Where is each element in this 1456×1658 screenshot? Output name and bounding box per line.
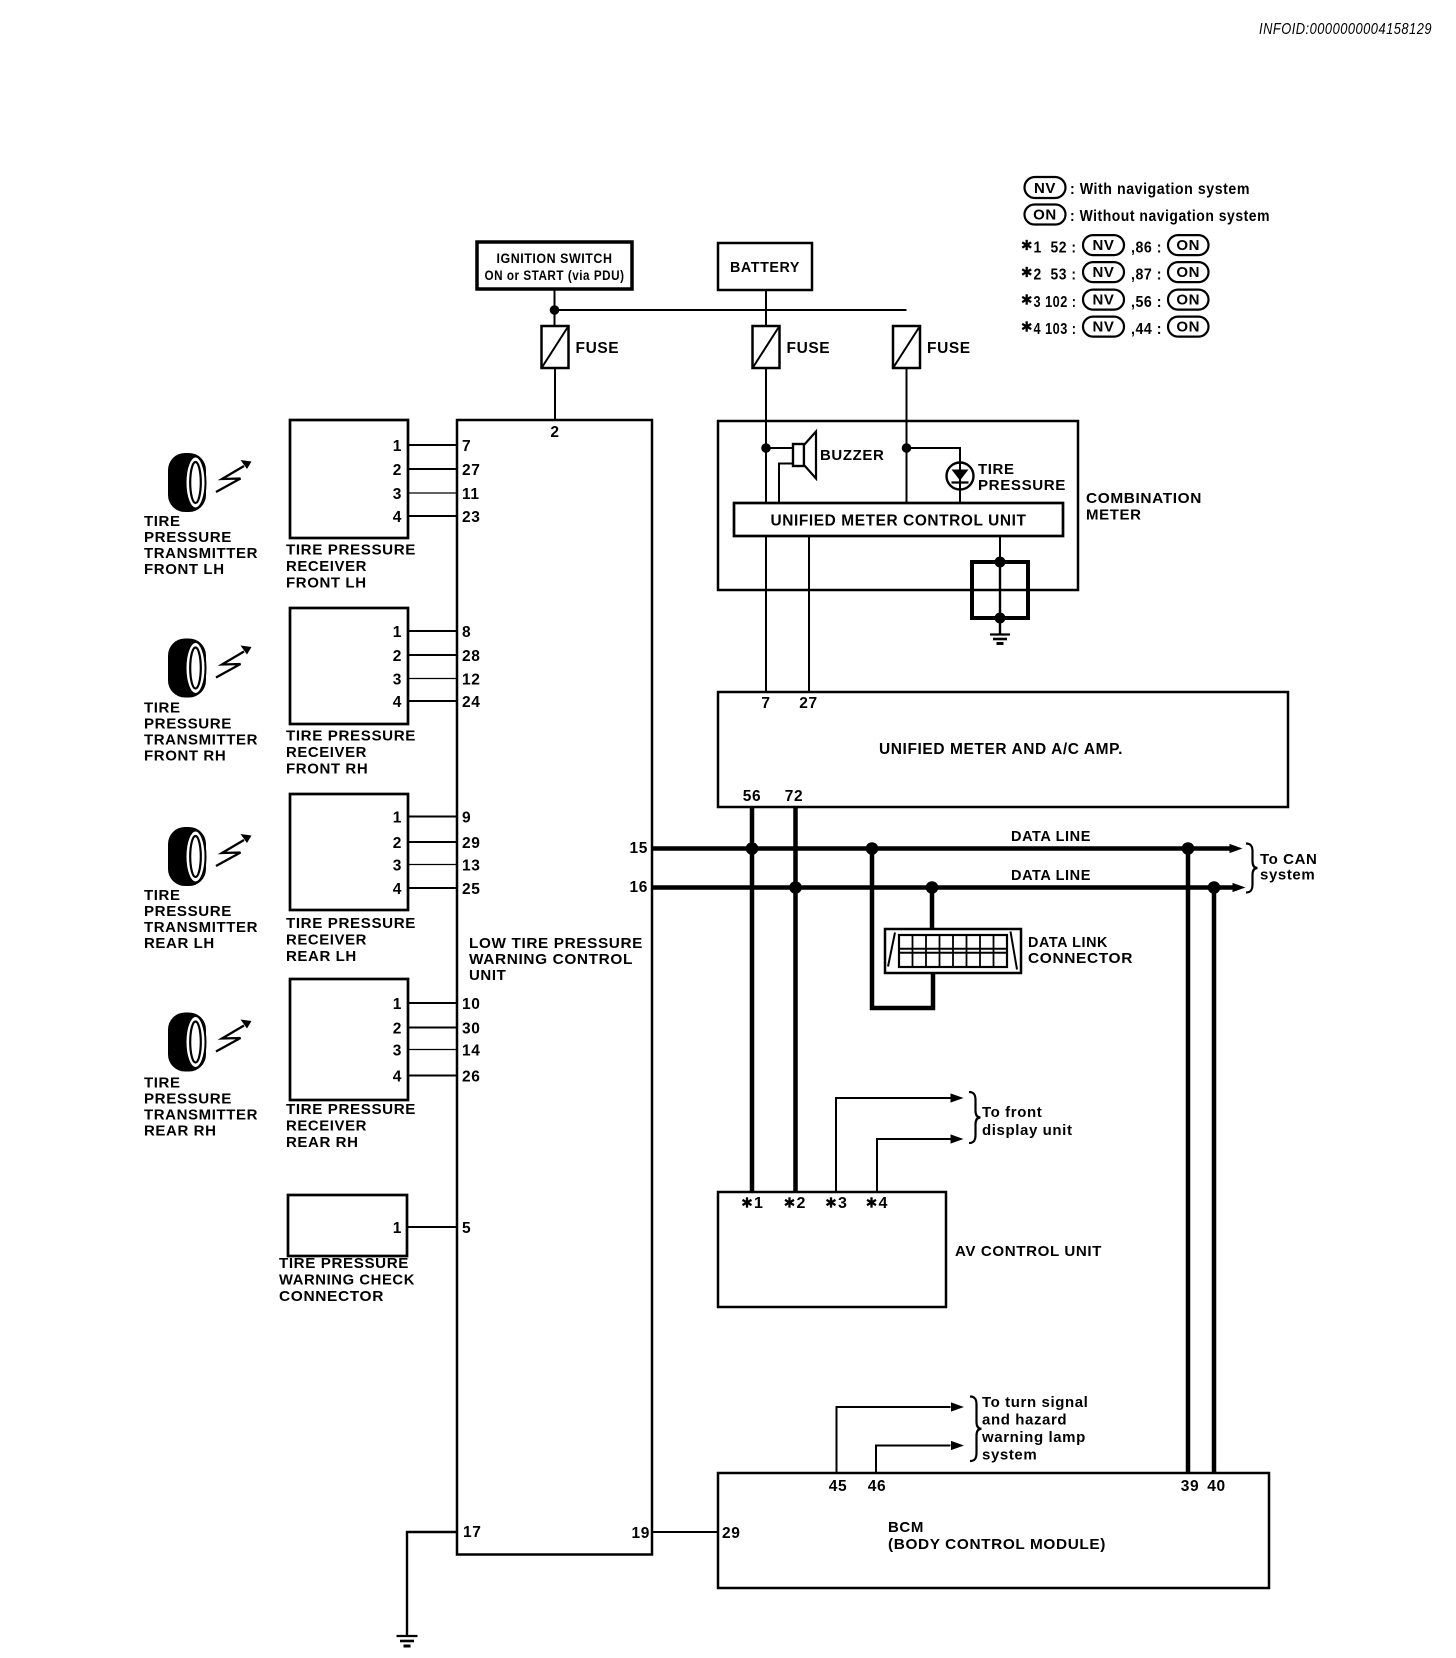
svg-text:ON: ON — [1176, 292, 1200, 309]
AV control unit pin *1 star — [743, 1197, 752, 1207]
svg-text:,86 :: ,86 : — [1131, 240, 1162, 257]
svg-text:METER: METER — [1086, 507, 1142, 524]
svg-text:1: 1 — [393, 996, 402, 1013]
svg-text:1: 1 — [393, 438, 402, 455]
junction: CAN-L / pin 72 — [789, 881, 802, 894]
front display arrowhead 1 — [951, 1093, 964, 1102]
wire: CAN-H to data link connector — [872, 849, 933, 1009]
ignition switch box — [477, 242, 632, 289]
wire: AV pin *3 to front display unit — [836, 1098, 952, 1192]
wire: through meter connector — [999, 562, 1001, 618]
svg-text:12: 12 — [462, 672, 480, 689]
svg-text:ON: ON — [1033, 207, 1057, 224]
svg-text:UNIFIED METER AND A/C AMP.: UNIFIED METER AND A/C AMP. — [879, 741, 1123, 758]
tire pressure receiver FRONT RH box — [290, 608, 408, 724]
svg-text:TIRE PRESSURE: TIRE PRESSURE — [286, 728, 416, 745]
svg-text:3: 3 — [393, 858, 402, 875]
svg-text:15: 15 — [630, 840, 648, 857]
AV control unit box — [718, 1192, 946, 1307]
wire: receiver REAR RH pin 1 to control unit pin 10 — [408, 1002, 457, 1004]
svg-text:INFOID:0000000004158129: INFOID:0000000004158129 — [1259, 21, 1432, 38]
svg-text:CONNECTOR: CONNECTOR — [279, 1288, 384, 1305]
svg-text:19: 19 — [632, 1525, 650, 1542]
svg-text:13: 13 — [462, 858, 480, 875]
svg-text:BATTERY: BATTERY — [730, 259, 800, 276]
svg-text:ON: ON — [1176, 237, 1200, 254]
svg-text:system: system — [1260, 867, 1315, 884]
wire: receiver FRONT RH pin 2 to control unit pin 28 — [408, 654, 457, 656]
tire pressure transmitter FRONT RH tire icon — [168, 639, 206, 698]
svg-text:3 102 :: 3 102 : — [1034, 294, 1077, 311]
tire pressure transmitter REAR RH signal arrow — [216, 1020, 252, 1052]
legend NV symbol — [1025, 177, 1066, 198]
legend note *3 NV symbol — [1083, 290, 1124, 310]
svg-text:BCM: BCM — [888, 1519, 924, 1536]
wire: receiver REAR RH pin 2 to control unit pin 30 — [408, 1027, 457, 1029]
svg-text:4: 4 — [393, 881, 402, 898]
svg-text:14: 14 — [462, 1043, 480, 1060]
junction: buzzer feed node — [761, 443, 771, 453]
svg-text:WARNING CHECK: WARNING CHECK — [279, 1272, 415, 1289]
legend note *3 star — [1022, 294, 1031, 304]
tire pressure warning check connector box — [288, 1195, 407, 1256]
svg-text:7: 7 — [462, 438, 471, 455]
svg-text:28: 28 — [462, 648, 480, 665]
svg-text:RECEIVER: RECEIVER — [286, 744, 367, 761]
svg-text:4 103 :: 4 103 : — [1034, 321, 1077, 338]
unified meter and A/C amp box — [718, 692, 1288, 807]
svg-text:23: 23 — [462, 509, 480, 526]
tire pressure transmitter REAR RH tire icon — [168, 1013, 206, 1072]
wire: BCM pin 45 to turn signal system — [837, 1407, 951, 1473]
svg-text:UNIT: UNIT — [469, 967, 506, 984]
svg-text:4: 4 — [393, 1069, 402, 1086]
svg-text:4: 4 — [393, 509, 402, 526]
wire: AV pin *4 to front display unit — [877, 1139, 952, 1192]
combination meter connector box — [972, 562, 1028, 618]
svg-text:PRESSURE: PRESSURE — [978, 477, 1066, 494]
svg-text:,87 :: ,87 : — [1131, 267, 1162, 284]
svg-text:ON: ON — [1176, 264, 1200, 281]
wire: CAN-H to BCM pin 39 — [1186, 849, 1191, 1474]
junction: CAN-H / data link connector — [866, 842, 879, 855]
AV control unit pin *4 star — [867, 1197, 876, 1207]
junction: CAN-H / pin 56 — [746, 842, 759, 855]
svg-text:and hazard: and hazard — [982, 1412, 1067, 1429]
svg-text:TIRE: TIRE — [144, 700, 181, 717]
BCM box — [718, 1473, 1269, 1588]
to front display unit brace — [969, 1092, 981, 1143]
wire: unified meter control unit to meter connector — [999, 536, 1001, 562]
svg-text:RECEIVER: RECEIVER — [286, 1118, 367, 1135]
svg-text:29: 29 — [722, 1525, 740, 1542]
svg-text:26: 26 — [462, 1069, 480, 1086]
wire: receiver FRONT LH pin 3 to control unit pin 11 — [408, 492, 457, 494]
svg-text:TIRE PRESSURE: TIRE PRESSURE — [279, 1255, 409, 1272]
wire: buzzer to unified meter control unit — [779, 464, 793, 504]
tire pressure receiver REAR LH box — [290, 794, 408, 910]
svg-text:ON: ON — [1176, 319, 1200, 336]
svg-text:DATA LINE: DATA LINE — [1011, 867, 1091, 884]
wire: ignition feed bus to fuse F3 — [555, 309, 907, 311]
front display arrowhead 2 — [951, 1134, 964, 1143]
svg-text:BUZZER: BUZZER — [820, 447, 884, 464]
svg-text:FRONT LH: FRONT LH — [286, 575, 367, 592]
svg-text:25: 25 — [462, 881, 480, 898]
to CAN system brace — [1246, 844, 1258, 893]
svg-text:39: 39 — [1181, 1478, 1199, 1495]
svg-text:3: 3 — [393, 672, 402, 689]
svg-text:NV: NV — [1092, 319, 1114, 336]
svg-text:2: 2 — [393, 462, 402, 479]
svg-text:ON or START (via PDU): ON or START (via PDU) — [485, 268, 625, 283]
junction: ignition feed node — [550, 305, 560, 315]
wire: unified meter control unit to amp pin 27 — [808, 536, 810, 692]
wire: control unit pin 17 to ground — [407, 1532, 457, 1636]
wire: receiver FRONT RH pin 1 to control unit pin 8 — [408, 630, 457, 632]
unified meter control unit box — [734, 503, 1063, 536]
tire pressure indicator lamp — [947, 463, 974, 490]
svg-text:REAR RH: REAR RH — [286, 1134, 359, 1151]
svg-text:3: 3 — [393, 486, 402, 503]
ground (combination meter) — [990, 635, 1010, 644]
svg-text:3: 3 — [838, 1195, 848, 1212]
svg-text:system: system — [982, 1447, 1037, 1464]
svg-text:NV: NV — [1034, 180, 1056, 197]
wire: receiver REAR RH pin 4 to control unit pin 26 — [408, 1075, 457, 1077]
svg-text:REAR LH: REAR LH — [286, 948, 357, 965]
legend note *1 star — [1022, 240, 1031, 250]
svg-text:RECEIVER: RECEIVER — [286, 932, 367, 949]
turn signal arrowhead 2 — [951, 1441, 964, 1450]
wire: receiver FRONT LH pin 2 to control unit pin 27 — [408, 468, 457, 470]
svg-text:40: 40 — [1207, 1478, 1225, 1495]
low tire pressure warning control unit box — [457, 420, 652, 1555]
svg-text:LOW TIRE PRESSURE: LOW TIRE PRESSURE — [469, 935, 643, 952]
junction: CAN-L / data link connector — [926, 881, 939, 894]
tire pressure transmitter REAR LH tire icon — [168, 827, 206, 886]
junction: connector bottom — [995, 613, 1006, 624]
svg-text:4: 4 — [393, 694, 402, 711]
legend note *4 NV symbol — [1083, 317, 1124, 337]
svg-text:TIRE PRESSURE: TIRE PRESSURE — [286, 915, 416, 932]
svg-text:To CAN: To CAN — [1260, 851, 1317, 868]
wire: amp pin 56 to AV control unit pin *1 (CAN-H) — [750, 807, 755, 1192]
svg-text:WARNING CONTROL: WARNING CONTROL — [469, 951, 633, 968]
svg-text:PRESSURE: PRESSURE — [144, 529, 232, 546]
wire: receiver REAR RH pin 3 to control unit pin 14 — [408, 1049, 457, 1051]
svg-text:1 52 :: 1 52 : — [1034, 240, 1077, 257]
svg-text:To turn signal: To turn signal — [982, 1394, 1088, 1411]
svg-text:45: 45 — [829, 1478, 847, 1495]
data line 16 arrowhead — [1233, 883, 1246, 892]
svg-text:,56 :: ,56 : — [1131, 294, 1162, 311]
svg-text:1: 1 — [754, 1195, 764, 1212]
data line 15 arrowhead — [1230, 844, 1243, 853]
svg-text:1: 1 — [393, 810, 402, 827]
legend note *2 star — [1022, 267, 1031, 277]
tire pressure receiver REAR RH box — [290, 979, 408, 1100]
svg-text:1: 1 — [393, 624, 402, 641]
svg-text:27: 27 — [799, 695, 817, 712]
svg-text:FUSE: FUSE — [927, 340, 971, 357]
svg-text:FUSE: FUSE — [576, 340, 620, 357]
wire: fuse F2 feed inside combination meter — [765, 421, 767, 503]
svg-text:REAR LH: REAR LH — [144, 935, 215, 952]
svg-text:5: 5 — [462, 1220, 471, 1237]
svg-text:4: 4 — [879, 1195, 889, 1212]
wire: ignition switch to fuse F1 — [554, 289, 556, 326]
data line 15 (CAN-H) — [652, 846, 1230, 851]
wire: amp pin 72 to AV control unit pin *2 (CAN-L) — [793, 807, 798, 1192]
wire: receiver FRONT LH pin 1 to control unit pin 7 — [408, 444, 457, 446]
svg-text:TRANSMITTER: TRANSMITTER — [144, 545, 258, 562]
tire pressure transmitter FRONT LH tire icon — [168, 453, 206, 512]
svg-text:TIRE PRESSURE: TIRE PRESSURE — [286, 1101, 416, 1118]
svg-text:3: 3 — [393, 1043, 402, 1060]
junction: connector top — [995, 557, 1006, 568]
svg-text:1: 1 — [393, 1220, 402, 1237]
legend ON symbol — [1025, 205, 1066, 225]
svg-text:TIRE PRESSURE: TIRE PRESSURE — [286, 542, 416, 559]
ground (control unit) — [397, 1636, 418, 1646]
svg-text:: With navigation system: : With navigation system — [1070, 181, 1250, 198]
legend note *2 ON symbol — [1168, 262, 1209, 282]
tire pressure receiver FRONT LH box — [290, 420, 408, 538]
svg-text:warning lamp: warning lamp — [981, 1429, 1086, 1446]
wire: BCM pin 46 to turn signal system — [876, 1446, 951, 1474]
data link connector — [885, 929, 1021, 973]
svg-text:TIRE: TIRE — [144, 513, 181, 530]
junction: CAN-H / BCM pin 39 — [1182, 842, 1195, 855]
wire: node to buzzer — [766, 447, 793, 449]
junction: tire pressure lamp feed node — [902, 443, 912, 453]
combination meter box — [718, 421, 1078, 590]
AV control unit pin *3 star — [827, 1197, 836, 1207]
svg-text:,44 :: ,44 : — [1131, 321, 1162, 338]
junction: CAN-L / BCM pin 40 — [1208, 881, 1221, 894]
svg-text:TRANSMITTER: TRANSMITTER — [144, 919, 258, 936]
svg-text:27: 27 — [462, 462, 480, 479]
battery box — [718, 243, 812, 290]
wire: fuse F1 to control unit pin 2 — [554, 368, 556, 420]
svg-text:IGNITION SWITCH: IGNITION SWITCH — [497, 251, 613, 266]
legend note *4 ON symbol — [1168, 317, 1209, 337]
svg-text:TIRE: TIRE — [144, 887, 181, 904]
svg-text:46: 46 — [868, 1478, 886, 1495]
svg-text:2: 2 — [797, 1195, 807, 1212]
svg-text:2 53 :: 2 53 : — [1034, 267, 1077, 284]
svg-text:FRONT RH: FRONT RH — [286, 761, 368, 778]
legend note *4 star — [1022, 321, 1031, 331]
to turn signal brace — [970, 1397, 982, 1462]
svg-text:2: 2 — [393, 1021, 402, 1038]
wire: fuse F3 to combination meter — [906, 368, 908, 421]
data line 16 (CAN-L) — [652, 885, 1233, 890]
svg-text:10: 10 — [462, 996, 480, 1013]
wire: receiver FRONT LH pin 4 to control unit pin 23 — [408, 515, 457, 517]
svg-text:RECEIVER: RECEIVER — [286, 558, 367, 575]
turn signal arrowhead 1 — [951, 1402, 964, 1411]
svg-text:NV: NV — [1092, 292, 1114, 309]
svg-text:: Without navigation system: : Without navigation system — [1070, 208, 1270, 225]
legend note *3 ON symbol — [1168, 290, 1209, 310]
svg-text:TRANSMITTER: TRANSMITTER — [144, 1107, 258, 1124]
svg-text:8: 8 — [462, 624, 471, 641]
wire: receiver REAR LH pin 4 to control unit pin 25 — [408, 887, 457, 889]
svg-text:11: 11 — [462, 486, 480, 503]
svg-text:7: 7 — [761, 695, 770, 712]
wire: check connector pin 1 to control unit pin 5 — [407, 1226, 457, 1228]
svg-text:FRONT RH: FRONT RH — [144, 748, 226, 765]
buzzer symbol — [793, 432, 816, 479]
wire: receiver REAR LH pin 1 to control unit pin 9 — [408, 816, 457, 818]
svg-text:24: 24 — [462, 694, 480, 711]
svg-text:DATA LINE: DATA LINE — [1011, 828, 1091, 845]
wire: fuse F3 feed inside combination meter — [906, 421, 908, 503]
wire: meter connector to ground — [999, 618, 1001, 635]
wire: receiver FRONT RH pin 4 to control unit pin 24 — [408, 700, 457, 702]
svg-text:COMBINATION: COMBINATION — [1086, 490, 1202, 507]
wire: CAN-L to data link connector — [930, 888, 935, 930]
wire: receiver REAR LH pin 2 to control unit pin 29 — [408, 841, 457, 843]
svg-text:CONNECTOR: CONNECTOR — [1028, 950, 1133, 967]
tire pressure transmitter REAR LH signal arrow — [216, 834, 252, 866]
svg-text:FUSE: FUSE — [787, 340, 831, 357]
svg-text:REAR RH: REAR RH — [144, 1123, 217, 1140]
wire: node to tire pressure indicator — [907, 448, 961, 503]
tire pressure transmitter FRONT LH signal arrow — [216, 460, 252, 492]
wire: unified meter control unit to amp pin 7 — [765, 536, 767, 692]
fuse F2 — [753, 326, 780, 368]
svg-text:29: 29 — [462, 835, 480, 852]
svg-text:PRESSURE: PRESSURE — [144, 903, 232, 920]
wire: receiver FRONT RH pin 3 to control unit pin 12 — [408, 678, 457, 680]
svg-text:To front: To front — [982, 1104, 1042, 1121]
svg-text:2: 2 — [393, 835, 402, 852]
svg-text:72: 72 — [785, 788, 803, 805]
svg-text:AV CONTROL UNIT: AV CONTROL UNIT — [955, 1243, 1102, 1260]
svg-text:PRESSURE: PRESSURE — [144, 716, 232, 733]
svg-text:9: 9 — [462, 810, 471, 827]
svg-text:display unit: display unit — [982, 1122, 1073, 1139]
fuse F3 — [893, 326, 920, 368]
svg-text:56: 56 — [743, 788, 761, 805]
svg-text:(BODY CONTROL MODULE): (BODY CONTROL MODULE) — [888, 1536, 1106, 1553]
wire: receiver REAR LH pin 3 to control unit pin 13 — [408, 864, 457, 866]
svg-text:TIRE: TIRE — [978, 461, 1015, 478]
svg-text:UNIFIED METER CONTROL UNIT: UNIFIED METER CONTROL UNIT — [771, 513, 1027, 530]
svg-text:16: 16 — [630, 879, 648, 896]
svg-text:NV: NV — [1092, 237, 1114, 254]
wire: battery to fuse F2 — [765, 290, 767, 326]
wire: control unit pin 19 to BCM pin 29 — [652, 1531, 718, 1533]
wire: CAN-L to BCM pin 40 — [1212, 888, 1217, 1474]
svg-text:2: 2 — [550, 424, 559, 441]
svg-text:2: 2 — [393, 648, 402, 665]
svg-text:DATA LINK: DATA LINK — [1028, 934, 1108, 951]
svg-text:FRONT LH: FRONT LH — [144, 561, 225, 578]
wire: fuse F2 to combination meter — [765, 368, 767, 421]
legend note *1 ON symbol — [1168, 235, 1209, 255]
svg-text:30: 30 — [462, 1021, 480, 1038]
tire pressure transmitter FRONT RH signal arrow — [216, 646, 252, 678]
AV control unit pin *2 star — [785, 1197, 794, 1207]
svg-text:17: 17 — [463, 1524, 481, 1541]
fuse F1 — [542, 326, 569, 368]
svg-text:NV: NV — [1092, 264, 1114, 281]
svg-text:PRESSURE: PRESSURE — [144, 1091, 232, 1108]
svg-text:TIRE: TIRE — [144, 1075, 181, 1092]
legend note *2 NV symbol — [1083, 262, 1124, 282]
legend note *1 NV symbol — [1083, 235, 1124, 255]
svg-text:TRANSMITTER: TRANSMITTER — [144, 732, 258, 749]
